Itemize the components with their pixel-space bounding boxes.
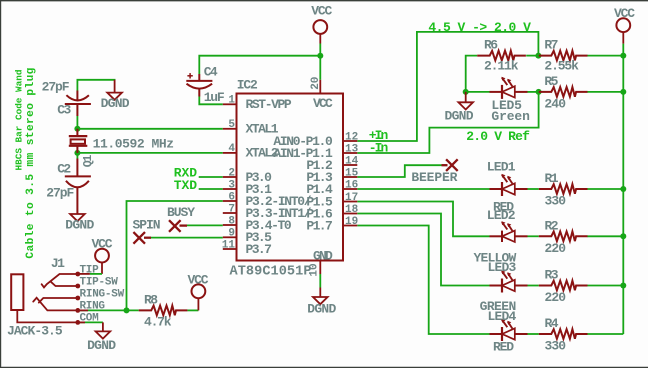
wire LED5 row left <box>466 91 490 93</box>
wire BUSY net to pin 8 <box>187 224 223 226</box>
svg-text:R4: R4 <box>545 316 559 331</box>
svg-text:11.0592 MHz: 11.0592 MHz <box>93 136 175 151</box>
svg-text:330: 330 <box>545 194 567 209</box>
svg-text:DGND: DGND <box>87 338 116 353</box>
junction at pin20 riser <box>317 53 323 59</box>
svg-text:JACK-3.5: JACK-3.5 <box>7 323 63 338</box>
wire LED5 to R5 <box>528 91 539 93</box>
wire COM net to DGND <box>78 321 103 323</box>
LED3 (GREEN) <box>490 270 528 292</box>
junction XTAL2 <box>74 150 80 156</box>
power VCC (above jack TIP) <box>92 237 113 274</box>
svg-text:1uF: 1uF <box>204 90 225 105</box>
IC2 pin 6 P3.2-INT0/ / pin 17 P1.5 <box>223 191 358 209</box>
svg-text:COM: COM <box>80 313 100 325</box>
svg-text:20: 20 <box>310 77 322 90</box>
svg-text:RED: RED <box>493 340 514 355</box>
note: vertical title text line 1 <box>14 70 25 171</box>
wire chip GND pin to DGND <box>319 274 321 288</box>
wire pin 19 to LED4 row <box>357 226 489 335</box>
svg-text:TIP: TIP <box>80 264 100 276</box>
capacitor C3 27pF <box>65 91 91 117</box>
wire R8 right to VCC stub <box>187 309 198 311</box>
svg-text:SPIN: SPIN <box>133 217 161 232</box>
svg-text:R7: R7 <box>544 38 558 53</box>
ground DGND (below LED5) <box>445 92 474 124</box>
junction rail at R5 <box>620 89 626 95</box>
wire R3 to VCC rail <box>587 285 623 287</box>
svg-text:2.11k: 2.11k <box>484 59 519 74</box>
power VCC (above IC pin 20) <box>311 4 332 44</box>
power VCC (right of R8) <box>188 272 209 310</box>
IC2 pin 3 P3.1 / pin 16 P1.4 <box>223 179 358 197</box>
svg-text:11: 11 <box>222 239 236 251</box>
junction rail at R2 <box>620 233 626 239</box>
svg-text:27pF: 27pF <box>46 185 74 200</box>
junction rail at R3 <box>620 283 626 289</box>
wire R2 to VCC rail <box>587 235 623 237</box>
svg-text:18: 18 <box>345 204 359 216</box>
svg-text:IC2: IC2 <box>237 78 258 93</box>
svg-text:R6: R6 <box>484 38 498 53</box>
junction RING/P3.2 <box>124 307 130 313</box>
wire LED1 to R1 <box>528 188 539 190</box>
capacitor C4 1uF (polarized) <box>186 73 212 96</box>
svg-text:17: 17 <box>345 192 358 204</box>
svg-text:R2: R2 <box>545 219 559 234</box>
svg-text:DGND: DGND <box>307 301 336 316</box>
IC2 pin 10 GND <box>308 248 333 276</box>
svg-text:4.5 V -> 2.0 V: 4.5 V -> 2.0 V <box>428 20 531 35</box>
wire R6 right to junction <box>526 55 538 57</box>
svg-text:7: 7 <box>228 203 235 215</box>
wire LED2 to R2 <box>528 235 539 237</box>
svg-text:LED1: LED1 <box>487 159 516 174</box>
svg-text:LED2: LED2 <box>487 208 516 223</box>
ground DGND (below IC GND pin) <box>307 288 336 317</box>
resistor R4 330 <box>539 316 588 353</box>
junction LED5 left / DGND <box>463 89 469 95</box>
junction LED5/R5/-In <box>536 89 542 95</box>
junction rail at R7 <box>620 53 626 59</box>
resistor R7 2.55k <box>539 38 588 74</box>
junction rail at R1 <box>620 186 626 192</box>
svg-text:R3: R3 <box>545 268 559 283</box>
IC2 pin 8 P3.4-T0 / pin 19 P1.7 <box>223 215 358 233</box>
svg-text:4.7k: 4.7k <box>144 315 172 330</box>
svg-text:J1: J1 <box>51 256 65 271</box>
svg-text:-In: -In <box>369 140 389 155</box>
J1 pin dots <box>75 272 80 325</box>
connector J1 JACK-3.5 body <box>11 274 85 322</box>
crystal Q1 11.0592 MHz <box>69 129 88 153</box>
svg-text:10: 10 <box>308 263 320 276</box>
wire TIP to VCC <box>90 273 102 275</box>
svg-text:TIP-SW: TIP-SW <box>80 276 119 288</box>
svg-text:VCC: VCC <box>311 4 332 19</box>
LED4 (RED) <box>490 319 528 341</box>
svg-text:AT89C1051P: AT89C1051P <box>230 265 312 280</box>
wire R5 right to rail <box>587 91 623 93</box>
svg-text:BEEPER: BEEPER <box>411 170 457 185</box>
IC2 pin 5 XTAL1 <box>223 119 279 137</box>
svg-text:DGND: DGND <box>445 108 474 123</box>
svg-text:R1: R1 <box>545 171 559 186</box>
IC2 pin 9 P3.5 <box>223 228 272 246</box>
svg-text:15: 15 <box>345 167 359 179</box>
svg-text:R8: R8 <box>144 292 158 307</box>
wire RST net: C4 bottom to pin 1 <box>199 97 223 105</box>
svg-text:9: 9 <box>228 228 235 240</box>
LED5 (Green) <box>490 77 528 99</box>
svg-text:Q1: Q1 <box>82 155 95 168</box>
IC2 pin 13 AIN1-P1.1 <box>273 143 358 161</box>
IC2 pin 2 P3.0 / pin 15 P1.3 <box>223 167 359 185</box>
wire pin 16 to LED1 row <box>357 188 489 190</box>
resistor R3 220 <box>539 268 588 305</box>
svg-text:R5: R5 <box>544 74 558 89</box>
LED1 (RED) <box>490 174 528 196</box>
wire R4 to VCC rail corner <box>587 333 623 335</box>
svg-text:Green: Green <box>491 109 530 124</box>
svg-text:2.0 V Ref: 2.0 V Ref <box>466 129 530 144</box>
capacitor C2 27pF <box>65 159 91 214</box>
wire P3.2 net: pin 6 down to RING row <box>127 201 223 310</box>
svg-text:2.55k: 2.55k <box>544 59 579 74</box>
IC2 pin 4 XTAL2 <box>223 143 279 161</box>
no-connect X BEEPER <box>442 159 458 171</box>
resistor R6 2.11k <box>477 38 526 74</box>
LED2 (YELLOW) <box>490 221 528 242</box>
svg-text:DGND: DGND <box>101 96 130 111</box>
wire XTAL2 net: crystal/C2 to pin 4 <box>77 153 222 159</box>
svg-text:P1.7: P1.7 <box>306 218 332 233</box>
wire R6 left leg down to LED5 <box>466 56 478 92</box>
svg-text:8: 8 <box>228 215 235 227</box>
resistor R1 330 <box>539 171 588 208</box>
svg-text:Cable to 3.5 mm stereo plug: Cable to 3.5 mm stereo plug <box>25 67 37 258</box>
IC2 pin 12 AIN0-P1.0 <box>273 131 358 149</box>
svg-text:VCC: VCC <box>614 6 635 21</box>
junction XTAL1 <box>74 126 80 132</box>
IC2 pin 7 P3.3-INT1/ / pin 18 P1.6 <box>223 203 359 221</box>
ground DGND (below jack COM) <box>87 322 116 352</box>
resistor R8 4.7k <box>139 292 188 329</box>
J1 RING contact arm <box>33 298 88 311</box>
wire VCC right rail <box>622 44 624 334</box>
svg-text:VCC: VCC <box>313 96 333 111</box>
svg-text:LED4: LED4 <box>488 309 517 324</box>
svg-text:P3.7: P3.7 <box>246 242 272 257</box>
wire TXD net to pin 3 <box>199 188 223 190</box>
svg-text:RST-VPP: RST-VPP <box>246 97 292 112</box>
J1 RING-SW contact arm <box>39 298 78 303</box>
svg-text:VCC: VCC <box>92 237 113 252</box>
svg-text:RING-SW: RING-SW <box>80 288 125 300</box>
wire RING net: jack RING pin through junction to R8 <box>78 309 139 311</box>
wire SPIN net to pin 9 <box>151 237 223 239</box>
wire R7 right to rail <box>587 55 623 57</box>
IC2 pin 1 RST-VPP <box>223 95 292 113</box>
svg-text:220: 220 <box>545 241 567 256</box>
J1 TIP-SW contact arm <box>51 282 78 286</box>
svg-text:19: 19 <box>345 216 358 228</box>
svg-text:1: 1 <box>228 95 235 107</box>
wire VCC net: C4 top to pin20 riser <box>199 44 320 80</box>
wire R1 to VCC rail <box>587 188 623 190</box>
IC2 pin 20 VCC <box>310 77 333 111</box>
note: vertical title text line 2 <box>25 67 37 258</box>
junction R6/R7 <box>535 53 541 59</box>
wire LED4 to R4 <box>528 333 539 335</box>
IC2 pin 11 P3.7 <box>222 239 272 256</box>
svg-text:220: 220 <box>545 290 567 305</box>
ground DGND (top, near C3) <box>101 80 130 111</box>
svg-text:27pF: 27pF <box>42 79 70 94</box>
svg-text:C2: C2 <box>57 162 71 177</box>
svg-text:14: 14 <box>345 155 359 167</box>
svg-text:RING: RING <box>80 301 106 313</box>
wire -In net: pin 13 up and over to LED5/R5 junction <box>357 92 538 153</box>
svg-text:VCC: VCC <box>188 272 209 287</box>
ground DGND (below C2) <box>65 214 94 232</box>
svg-text:HBCS Bar Code Wand: HBCS Bar Code Wand <box>14 70 25 171</box>
svg-text:240: 240 <box>544 97 566 112</box>
wire BEEPER net from pin 15 <box>357 165 441 177</box>
wire pin 17 to LED2 row <box>357 202 489 237</box>
no-connect X BUSY <box>169 220 187 232</box>
svg-text:4: 4 <box>228 143 235 155</box>
wire LED3 to R3 <box>528 285 539 287</box>
svg-text:330: 330 <box>545 339 567 354</box>
wire XTAL1 net: C3/crystal to pin 5 <box>77 116 222 129</box>
wire DGND net at C3 top <box>77 80 114 91</box>
svg-text:13: 13 <box>345 143 359 155</box>
svg-text:TXD: TXD <box>174 178 197 193</box>
wire pin 18 to LED3 row <box>357 214 489 286</box>
svg-text:BUSY: BUSY <box>167 205 195 220</box>
svg-text:3: 3 <box>228 179 235 191</box>
svg-text:5: 5 <box>228 119 235 131</box>
wire +In net: pin 12 up and over to R6/R7 junction <box>357 32 538 141</box>
wire RXD net to pin 2 <box>199 176 223 178</box>
svg-text:16: 16 <box>345 179 358 191</box>
svg-text:C4: C4 <box>204 65 218 80</box>
svg-text:6: 6 <box>228 191 235 203</box>
svg-text:C3: C3 <box>57 103 71 118</box>
no-connect X SPIN <box>133 232 151 244</box>
resistor R5 240 <box>539 74 588 112</box>
svg-text:12: 12 <box>345 131 358 143</box>
op IC2 chip body <box>237 94 344 261</box>
svg-text:DGND: DGND <box>65 217 94 232</box>
J1 TIP contact arm <box>42 274 90 288</box>
IC2 pin 14 P1.2 <box>306 155 358 173</box>
svg-text:LED3: LED3 <box>488 260 517 275</box>
svg-text:2: 2 <box>228 167 235 179</box>
resistor R2 220 <box>539 219 588 256</box>
power VCC (right rail top) <box>614 6 635 44</box>
svg-text:GND: GND <box>313 248 333 263</box>
